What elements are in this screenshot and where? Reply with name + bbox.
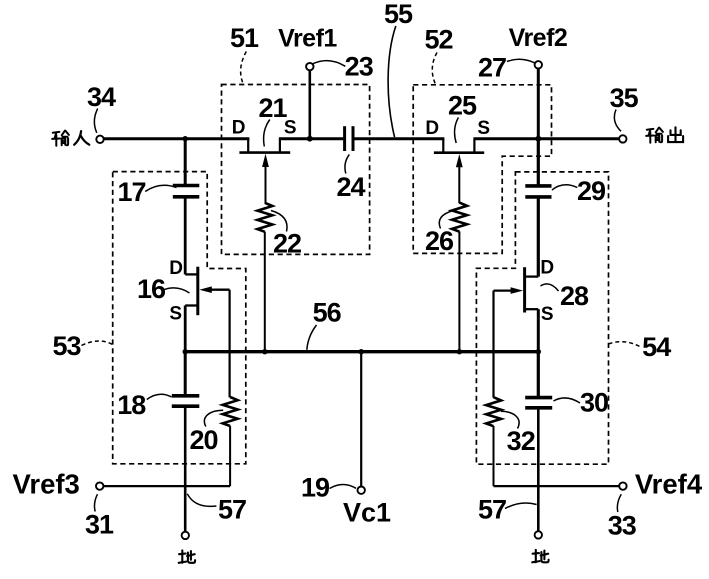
junction: main wire at left branch [183, 136, 188, 141]
svg-text:29: 29 [577, 176, 606, 206]
transistor 16 [185, 267, 229, 352]
svg-text:D: D [169, 258, 183, 279]
leader for 30 [554, 398, 581, 403]
svg-text:22: 22 [273, 229, 301, 259]
label input (CJK 输入) [52, 131, 89, 146]
dashed box 52 [413, 85, 551, 254]
svg-text:16: 16 [137, 274, 166, 304]
leader for 56 [307, 325, 317, 350]
wire: gate of 16 down through node 56 [229, 290, 231, 398]
leader for 16 [163, 288, 190, 293]
label ground right (CJK) [532, 550, 548, 562]
svg-text:51: 51 [230, 23, 259, 53]
svg-text:26: 26 [425, 226, 454, 256]
wire: right main vertical branch [537, 139, 540, 276]
leader for 57 left [187, 494, 216, 507]
wire: Vref3 line (57 left) [103, 485, 230, 487]
svg-text:S: S [541, 304, 554, 325]
leader for 27 [507, 59, 535, 63]
transistor 25 [434, 139, 484, 204]
svg-text:52: 52 [424, 24, 452, 54]
svg-text:27: 27 [478, 53, 506, 83]
label ground left (CJK) [179, 550, 195, 562]
svg-text:S: S [169, 304, 182, 325]
junction: main wire at Vref1 [307, 136, 313, 142]
leader for 33 [617, 494, 621, 512]
capacitor 29 [525, 186, 551, 197]
leader for 26 [439, 211, 453, 229]
resistor 26 [452, 203, 467, 352]
leader for 53 [82, 341, 113, 346]
svg-text:23: 23 [345, 52, 374, 82]
svg-text:35: 35 [610, 83, 639, 113]
wire: left main vertical branch [184, 139, 187, 274]
svg-text:34: 34 [87, 82, 116, 112]
svg-text:D: D [540, 258, 554, 279]
svg-text:S: S [477, 118, 490, 139]
terminal: input port (34) [96, 136, 103, 143]
wire: Vc1 branch (19) [358, 352, 365, 494]
dashed box 54 [476, 172, 608, 464]
svg-text:Vref2: Vref2 [509, 24, 568, 52]
svg-text:33: 33 [608, 511, 637, 541]
junction: node 56 at resistor 22 [262, 349, 267, 354]
leader for 19 [330, 484, 357, 488]
svg-text:19: 19 [301, 473, 330, 503]
capacitor 17 [173, 186, 200, 197]
resistor 20 [223, 397, 238, 486]
wire: gate of 28 down through node 56 [492, 291, 494, 398]
node 56 horizontal wire [185, 350, 538, 353]
svg-text:17: 17 [117, 177, 145, 207]
dashed box 53 [113, 172, 246, 464]
svg-text:28: 28 [560, 281, 589, 311]
wire: main input-output horizontal line [104, 137, 620, 140]
terminal: ground right [535, 531, 542, 538]
junction: main wire at Vref2 [535, 136, 541, 142]
transistor 28 [494, 267, 539, 352]
svg-text:55: 55 [384, 0, 413, 29]
capacitor 24 [345, 126, 353, 151]
leader for 28 [541, 284, 559, 291]
svg-text:54: 54 [642, 332, 671, 362]
junction: node 56 at Vc1 branch [359, 349, 364, 354]
svg-text:32: 32 [507, 426, 535, 456]
svg-text:30: 30 [580, 388, 608, 418]
svg-text:18: 18 [117, 390, 146, 420]
leader for 51 [241, 52, 247, 85]
resistor 22 [257, 203, 272, 352]
leader for 22 [271, 211, 287, 232]
svg-text:D: D [425, 118, 439, 139]
svg-text:24: 24 [336, 172, 365, 202]
terminal: output port (35) [619, 135, 626, 142]
svg-text:20: 20 [189, 425, 217, 455]
transistor 21 [239, 139, 290, 204]
svg-text:57: 57 [218, 495, 246, 525]
junction: node 56 right end [536, 349, 541, 354]
terminal: ground left [182, 532, 189, 539]
leader for 29 [552, 185, 577, 190]
svg-text:57: 57 [478, 495, 506, 525]
leader for 17 [145, 185, 176, 191]
svg-text:25: 25 [448, 91, 477, 121]
svg-text:Vref3: Vref3 [13, 469, 80, 500]
terminal: Vref2 (27) [535, 61, 542, 139]
leader for 55 [388, 26, 396, 137]
svg-text:Vref4: Vref4 [635, 469, 703, 500]
leader for 52 [432, 53, 437, 85]
leader for 34 [94, 109, 97, 133]
junction: node 56 at source of 16 [183, 349, 188, 354]
leader for 32 [501, 411, 519, 428]
leader for 54 [609, 342, 642, 348]
svg-text:Vref1: Vref1 [278, 25, 337, 53]
resistor 32 [486, 397, 501, 486]
leader for 23 [313, 61, 345, 67]
svg-text:56: 56 [313, 298, 342, 328]
leader for 21 [264, 120, 270, 147]
junction: node 56 at resistor 26 [457, 349, 462, 354]
dashed box 51 [222, 85, 370, 255]
capacitor 30 [525, 352, 552, 532]
leader for 20 [204, 410, 223, 426]
svg-text:S: S [284, 117, 297, 138]
terminal: Vref4 (33) [619, 482, 626, 489]
leader for 57 right [505, 503, 537, 509]
svg-text:D: D [232, 118, 246, 139]
label output (CJK 输出) [646, 127, 683, 142]
terminal: Vref3 (31) [96, 482, 103, 489]
capacitor 18 [172, 352, 200, 532]
leader for 24 [345, 155, 349, 174]
wire: Vref4 line (57 right) [494, 485, 620, 487]
svg-text:53: 53 [52, 331, 81, 361]
svg-text:31: 31 [85, 510, 114, 540]
terminal: Vref1 (23) [306, 63, 313, 139]
leader for 25 [455, 118, 459, 144]
svg-text:Vc1: Vc1 [343, 498, 391, 528]
leader for 18 [147, 394, 172, 399]
leader for 35 [614, 110, 621, 132]
leader for 31 [94, 494, 97, 511]
